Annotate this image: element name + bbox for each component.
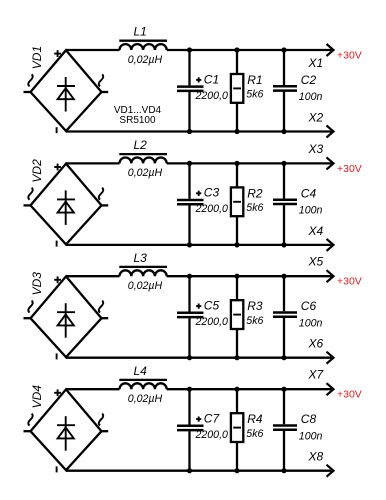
power rating dash inside R3 [233,314,241,316]
junction dot top rail 2 [234,47,239,52]
svg-text:2200,0: 2200,0 [195,316,229,328]
wire bottom rail (bridge - output to arrow X8) [66,470,332,472]
wire stub to C5 top [188,276,190,311]
resistor R3 body [231,300,243,329]
svg-text:0,02µH: 0,02µH [128,167,163,179]
junction dot bottom rail 3 [281,129,286,134]
junction dot bottom rail 2 [234,129,239,134]
wire top rail right (inductor to arrow X1) [167,49,332,51]
svg-text:L3: L3 [134,251,148,265]
svg-text:5k6: 5k6 [246,89,263,101]
junction dot top rail 3 [281,274,286,279]
bridge rectifier VD1 diamond [31,50,102,131]
inductor L3 core bar [119,266,167,268]
arrowhead output X2 [327,126,334,138]
inductor L2 winding [120,158,167,164]
wire top rail right (inductor to arrow X3) [167,162,332,164]
minus polarity mark of bridge (rotated) [56,466,58,472]
svg-text:SR5100: SR5100 [119,115,156,126]
power rating dash inside R1 [233,87,241,89]
svg-text:X2: X2 [308,111,324,125]
arrowhead output X5 [327,270,334,282]
plus polarity mark of bridge [54,50,61,57]
junction dot bottom rail 1 [187,468,192,473]
inductor L1 core bar [119,40,167,42]
junction dot bottom rail 1 [187,242,192,247]
AC tilde mark left [28,188,32,200]
capacitor C5 plates (electrolytic 2200,0) [177,313,204,317]
AC input stub left [24,91,32,93]
junction dot top rail 3 [281,47,286,52]
svg-text:100n: 100n [299,91,323,103]
svg-text:X4: X4 [308,224,324,238]
junction dot top rail 2 [234,161,239,166]
junction dot bottom rail 2 [234,242,239,247]
junction dot bottom rail 3 [281,242,286,247]
svg-text:0,02µH: 0,02µH [128,280,163,292]
AC tilde mark right [99,188,103,200]
svg-text:+30V: +30V [337,276,362,288]
svg-text:2200,0: 2200,0 [195,429,229,441]
AC input stub right [101,91,108,93]
resistor R2 body [231,187,243,216]
inductor L1 winding [120,44,167,50]
svg-text:0,02µH: 0,02µH [128,54,163,66]
svg-text:VD3: VD3 [30,272,44,296]
resistor R1 body [231,74,243,103]
arrowhead output X7 [327,383,334,395]
svg-text:VD4: VD4 [30,385,44,409]
svg-text:C7: C7 [204,412,221,426]
plus polarity mark of bridge [54,276,61,283]
wire top rail left (bridge + output to inductor) [66,388,120,390]
wire stub from C2 bottom [283,92,285,132]
junction dot bottom rail 3 [281,355,286,360]
wire stub to C3 top [188,163,190,198]
wire stub to R3 top [236,276,238,300]
AC tilde mark right [99,301,103,313]
junction dot top rail 1 [187,161,192,166]
wire top rail right (inductor to arrow X5) [167,275,332,277]
junction dot top rail 1 [187,274,192,279]
wire top rail right (inductor to arrow X7) [167,388,332,390]
svg-text:2200,0: 2200,0 [195,203,229,215]
wire stub to C8 top [283,389,285,424]
svg-text:5k6: 5k6 [246,202,263,214]
junction dot bottom rail 2 [234,468,239,473]
plus polarity mark of bridge [54,164,61,171]
diode inside bridge VD1 [57,77,75,112]
wire stub from C4 bottom [283,205,285,245]
minus polarity mark of bridge (rotated) [56,127,58,133]
wire stub to C2 top [283,50,285,85]
junction dot bottom rail 2 [234,355,239,360]
AC input stub left [24,317,32,319]
svg-text:X7: X7 [308,368,325,382]
svg-text:L2: L2 [134,138,148,152]
inductor L4 core bar [119,379,167,381]
AC input stub left [24,430,32,432]
wire stub from R4 bottom [236,442,238,471]
wire stub from R1 bottom [236,103,238,132]
svg-text:5k6: 5k6 [246,315,263,327]
junction dot top rail 1 [187,387,192,392]
arrowhead output X3 [327,157,334,169]
svg-text:C5: C5 [204,299,220,313]
svg-text:X5: X5 [308,255,324,269]
AC input stub right [101,204,108,206]
plus mark of C3 [196,191,201,196]
capacitor C8 plates (100n) [273,426,297,430]
arrowhead output X6 [327,352,334,364]
capacitor C6 plates (100n) [273,313,297,317]
wire stub to R2 top [236,163,238,187]
svg-text:R2: R2 [247,186,263,200]
plus polarity mark of bridge [54,389,61,396]
svg-text:X6: X6 [308,337,324,351]
svg-text:C6: C6 [301,299,317,313]
arrowhead output X1 [327,44,334,56]
inductor L3 winding [120,270,167,276]
plus mark of C1 [196,77,201,82]
svg-text:100n: 100n [299,205,323,217]
svg-text:5k6: 5k6 [246,428,263,440]
power rating dash inside R2 [233,201,241,203]
capacitor C7 plates (electrolytic 2200,0) [177,426,204,430]
power rating dash inside R4 [233,427,241,429]
svg-text:L1: L1 [134,25,147,39]
capacitor C4 plates (100n) [273,200,297,204]
junction dot top rail 1 [187,47,192,52]
capacitor C2 plates (100n) [273,86,297,90]
bridge rectifier VD3 diamond [31,276,102,357]
minus polarity mark of bridge (rotated) [56,241,58,247]
junction dot top rail 2 [234,274,239,279]
AC tilde mark left [28,301,32,313]
inductor L4 winding [120,383,167,389]
svg-text:L4: L4 [134,364,148,378]
wire stub from C7 bottom [188,431,190,471]
svg-text:X1: X1 [308,56,324,70]
wire stub from C6 bottom [283,318,285,358]
AC tilde mark right [99,414,103,426]
svg-text:100n: 100n [299,317,323,329]
arrowhead output X4 [327,239,334,251]
wire stub to C6 top [283,276,285,311]
svg-text:2200,0: 2200,0 [195,90,229,102]
AC input stub right [101,317,108,319]
wire bottom rail (bridge - output to arrow X6) [66,357,332,359]
svg-text:VD1: VD1 [30,46,44,69]
arrowhead output X8 [327,465,334,477]
junction dot bottom rail 1 [187,355,192,360]
AC tilde mark left [28,414,32,426]
wire bottom rail (bridge - output to arrow X2) [66,130,332,132]
junction dot bottom rail 3 [281,468,286,473]
wire stub from R3 bottom [236,329,238,358]
junction dot top rail 3 [281,161,286,166]
diode inside bridge VD2 [57,190,75,225]
svg-text:C1: C1 [204,72,219,86]
svg-text:0,02µH: 0,02µH [128,393,163,405]
wire top rail left (bridge + output to inductor) [66,275,120,277]
wire stub from C5 bottom [188,318,190,358]
svg-text:C3: C3 [204,186,220,200]
AC input stub left [24,204,32,206]
svg-text:+30V: +30V [337,163,362,175]
svg-text:R4: R4 [247,412,263,426]
bridge rectifier VD2 diamond [31,164,102,245]
AC input stub right [101,430,108,432]
wire stub from C1 bottom [188,92,190,132]
junction dot top rail 3 [281,387,286,392]
junction dot top rail 2 [234,387,239,392]
wire stub from C8 bottom [283,431,285,471]
wire stub from R2 bottom [236,216,238,245]
wire top rail left (bridge + output to inductor) [66,49,120,51]
svg-text:C2: C2 [301,73,317,87]
inductor L2 core bar [119,153,167,155]
svg-text:R1: R1 [247,73,262,87]
wire stub to R4 top [236,389,238,413]
minus polarity mark of bridge (rotated) [56,353,58,359]
svg-text:+30V: +30V [337,49,362,61]
bridge rectifier VD4 diamond [31,389,102,470]
wire bottom rail (bridge - output to arrow X4) [66,244,332,246]
diode inside bridge VD3 [57,303,75,338]
svg-text:VD2: VD2 [30,159,44,183]
svg-text:X8: X8 [308,450,324,464]
svg-text:100n: 100n [299,430,323,442]
wire top rail left (bridge + output to inductor) [66,162,120,164]
wire stub to C7 top [188,389,190,424]
wire stub to R1 top [236,50,238,74]
capacitor C1 plates (electrolytic 2200,0) [177,87,204,91]
svg-text:C4: C4 [301,186,317,200]
svg-text:C8: C8 [301,412,317,426]
capacitor C3 plates (electrolytic 2200,0) [177,200,204,204]
AC tilde mark right [99,74,103,86]
wire stub to C1 top [188,50,190,85]
plus mark of C5 [196,304,201,309]
svg-text:+30V: +30V [337,389,362,401]
junction dot bottom rail 1 [187,129,192,134]
resistor R4 body [231,413,243,442]
AC tilde mark left [28,74,32,86]
svg-text:X3: X3 [308,142,324,156]
wire stub from C3 bottom [188,205,190,245]
plus mark of C7 [196,417,201,422]
wire stub to C4 top [283,163,285,198]
diode inside bridge VD4 [57,416,75,451]
svg-text:R3: R3 [247,299,263,313]
